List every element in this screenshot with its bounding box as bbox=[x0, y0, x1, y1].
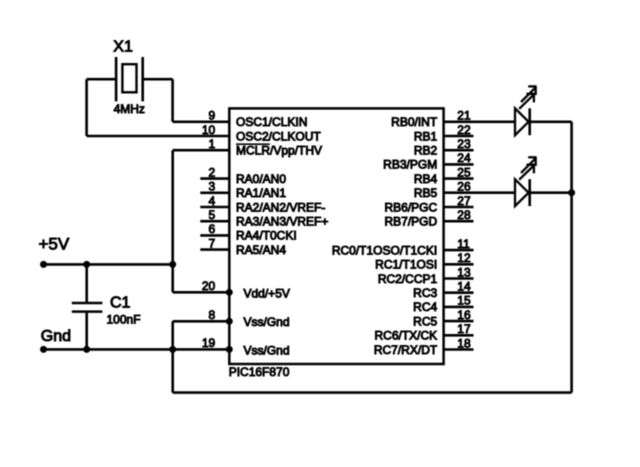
svg-text:PIC16F870: PIC16F870 bbox=[229, 365, 290, 379]
svg-text:RB1: RB1 bbox=[414, 129, 438, 143]
svg-text:13: 13 bbox=[457, 265, 471, 279]
svg-text:RC7/RX/DT: RC7/RX/DT bbox=[374, 343, 438, 357]
svg-text:12: 12 bbox=[457, 251, 471, 265]
svg-text:22: 22 bbox=[457, 123, 471, 137]
svg-text:100nF: 100nF bbox=[107, 313, 141, 327]
svg-text:26: 26 bbox=[457, 180, 471, 194]
svg-text:C1: C1 bbox=[110, 295, 131, 312]
svg-text:6: 6 bbox=[209, 222, 216, 236]
svg-text:X1: X1 bbox=[113, 39, 133, 56]
svg-text:20: 20 bbox=[202, 279, 216, 293]
svg-text:18: 18 bbox=[457, 336, 471, 350]
svg-text:17: 17 bbox=[457, 322, 471, 336]
svg-text:19: 19 bbox=[202, 336, 216, 350]
svg-text:10: 10 bbox=[202, 123, 216, 137]
svg-text:RB0/INT: RB0/INT bbox=[391, 115, 438, 129]
svg-text:2: 2 bbox=[209, 165, 216, 179]
svg-text:RB6/PGC: RB6/PGC bbox=[385, 200, 438, 214]
svg-text:24: 24 bbox=[457, 151, 471, 165]
svg-text:RA0/AN0: RA0/AN0 bbox=[236, 172, 286, 186]
svg-text:RB5: RB5 bbox=[414, 186, 438, 200]
svg-text:RA4/T0CKI: RA4/T0CKI bbox=[236, 229, 297, 243]
svg-text:9: 9 bbox=[209, 109, 216, 123]
svg-text:RA1/AN1: RA1/AN1 bbox=[236, 186, 286, 200]
svg-text:21: 21 bbox=[457, 109, 471, 123]
svg-text:3: 3 bbox=[209, 180, 216, 194]
svg-text:RB4: RB4 bbox=[414, 172, 438, 186]
svg-text:RB2: RB2 bbox=[414, 144, 438, 158]
svg-text:RB3/PGM: RB3/PGM bbox=[383, 158, 437, 172]
svg-text:RC0/T1OSO/T1CKI: RC0/T1OSO/T1CKI bbox=[332, 243, 437, 257]
svg-text:RC3: RC3 bbox=[413, 286, 437, 300]
svg-text:Vss/Gnd: Vss/Gnd bbox=[244, 343, 290, 357]
svg-text:25: 25 bbox=[457, 165, 471, 179]
svg-text:28: 28 bbox=[457, 208, 471, 222]
svg-text:RC2/CCP1: RC2/CCP1 bbox=[378, 272, 438, 286]
svg-text:27: 27 bbox=[457, 194, 471, 208]
svg-text:Vss/Gnd: Vss/Gnd bbox=[244, 315, 290, 329]
svg-text:MCLR/Vpp/THV: MCLR/Vpp/THV bbox=[236, 144, 322, 158]
svg-text:Gnd: Gnd bbox=[41, 328, 71, 345]
svg-text:11: 11 bbox=[457, 237, 470, 251]
svg-text:RA2/AN2/VREF-: RA2/AN2/VREF- bbox=[236, 200, 325, 214]
svg-text:14: 14 bbox=[457, 280, 471, 294]
svg-text:4: 4 bbox=[209, 194, 216, 208]
svg-text:Vdd/+5V: Vdd/+5V bbox=[244, 286, 290, 300]
svg-text:15: 15 bbox=[457, 294, 471, 308]
svg-text:RC6/TX/CK: RC6/TX/CK bbox=[375, 329, 438, 343]
svg-text:8: 8 bbox=[209, 308, 216, 322]
svg-text:RB7/PGD: RB7/PGD bbox=[385, 215, 438, 229]
svg-text:RC4: RC4 bbox=[413, 300, 437, 314]
svg-text:7: 7 bbox=[209, 236, 216, 250]
svg-text:RA3/AN3/VREF+: RA3/AN3/VREF+ bbox=[236, 215, 328, 229]
svg-text:OSC2/CLKOUT: OSC2/CLKOUT bbox=[236, 129, 321, 143]
svg-text:OSC1/CLKIN: OSC1/CLKIN bbox=[236, 115, 307, 129]
svg-text:RC1/T1OSI: RC1/T1OSI bbox=[375, 258, 437, 272]
svg-text:RA5/AN4: RA5/AN4 bbox=[236, 243, 286, 257]
svg-text:4MHz: 4MHz bbox=[114, 102, 145, 116]
svg-text:1: 1 bbox=[209, 137, 216, 151]
svg-text:16: 16 bbox=[457, 308, 471, 322]
svg-text:RC5: RC5 bbox=[413, 314, 437, 328]
svg-text:5: 5 bbox=[209, 208, 216, 222]
svg-text:+5V: +5V bbox=[39, 234, 70, 253]
svg-text:23: 23 bbox=[457, 137, 471, 151]
